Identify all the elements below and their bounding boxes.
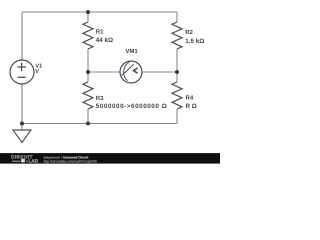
- wire R4 top lead: [176, 72, 178, 82]
- watermark logo LAB row: [12, 161, 21, 162]
- watermark bar: [0, 153, 220, 164]
- svg-text:LAB: LAB: [29, 159, 39, 164]
- node B junction (mid left): [86, 70, 90, 74]
- node A junction (top R1): [86, 10, 90, 14]
- voltage source V1: [10, 60, 34, 84]
- voltmeter VM1: [120, 61, 142, 83]
- wire V1 top lead: [21, 12, 23, 60]
- svg-text:VM1: VM1: [125, 48, 138, 55]
- svg-text:R3: R3: [96, 95, 104, 102]
- svg-text:44 kΩ: 44 kΩ: [96, 37, 113, 44]
- wire R1 bottom lead: [87, 49, 89, 72]
- wire R4 bottom lead: [176, 109, 178, 124]
- wire R2 bottom lead: [176, 49, 178, 72]
- svg-text:R2: R2: [185, 29, 193, 36]
- wire bottom rail: [22, 123, 177, 125]
- node D junction (bottom R3): [86, 122, 90, 126]
- wire ground stem: [21, 124, 23, 131]
- resistor R4: [172, 82, 182, 109]
- svg-text:R4: R4: [186, 94, 194, 101]
- resistor R3: [83, 82, 93, 109]
- svg-text:5000000->6000000 Ω: 5000000->6000000 Ω: [96, 103, 168, 110]
- svg-text:1.5 kΩ: 1.5 kΩ: [185, 38, 204, 45]
- wire R3 bottom lead: [87, 109, 89, 124]
- wire top rail: [22, 11, 177, 13]
- node C junction (mid right): [175, 70, 179, 74]
- wire V1 bottom lead: [21, 84, 23, 124]
- svg-text:http://circuitlab.com/css/hh7u: http://circuitlab.com/css/hh7u2sK92: [44, 159, 97, 163]
- ground: [13, 130, 31, 143]
- resistor R2: [172, 22, 182, 49]
- svg-text:V: V: [35, 69, 39, 75]
- wire R1 top lead: [87, 12, 89, 22]
- wire mid left (node B to VM1): [88, 71, 120, 73]
- wire R2 top lead: [176, 12, 178, 22]
- svg-text:R Ω: R Ω: [186, 103, 197, 110]
- resistor R1: [83, 22, 93, 49]
- wire mid right (VM1 to node C): [142, 71, 177, 73]
- wire R3 top lead: [87, 72, 89, 82]
- svg-text:R1: R1: [96, 28, 104, 35]
- node GND junction: [20, 122, 24, 126]
